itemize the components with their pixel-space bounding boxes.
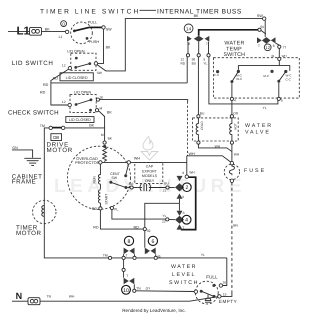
svg-text:6: 6 [151,239,154,245]
wire node32 down to contact 6 [144,231,146,248]
check switch [40,124,105,130]
terminal 21 BU [163,181,175,192]
temp switch internals [214,57,292,97]
wire SW net (lid sw1 to buss) [97,14,264,75]
wire 50 (buss to contact 14) [199,25,266,36]
timer motor [33,200,56,223]
wire node32 up to contacts 2/4 [145,203,180,227]
svg-text:YL: YL [201,253,205,257]
fuse F1 [224,161,266,182]
wire TM to timer motor and neutral rail [44,130,227,258]
cam number 2 [183,183,192,192]
svg-text:WH: WH [69,295,75,299]
wire WH valve hot to fuse [232,144,240,161]
svg-text:RD: RD [134,225,140,229]
svg-text:YL: YL [203,61,207,65]
svg-text:5: 5 [281,98,283,102]
svg-text:MOTOR: MOTOR [47,147,73,154]
svg-text:32: 32 [147,229,151,233]
footer credit [122,308,186,313]
water valve box [193,118,239,141]
overload protector element [103,147,107,161]
timer contact 4 [175,211,185,230]
svg-text:T: T [258,44,260,48]
water level switch [194,281,222,304]
svg-text:T: T [182,226,184,230]
svg-text:8: 8 [146,251,148,255]
svg-text:50: 50 [260,25,264,29]
connector CO (line cord) [30,27,66,38]
svg-text:Rendered by LeadVenture, Inc.: Rendered by LeadVenture, Inc. [122,308,186,313]
svg-text:RD: RD [181,61,186,65]
label TIMER MOTOR [16,225,41,237]
timer contact 14 [184,24,193,33]
terminal N [12,291,28,301]
svg-text:T: T [126,254,128,258]
wire RD lid sw1 to lid sw2 [40,69,68,105]
svg-text:15: 15 [223,293,227,297]
motor start terminal [92,207,102,211]
svg-text:WH: WH [134,157,140,161]
svg-text:HOT: HOT [233,123,237,130]
motor top bus wire WH [99,157,187,164]
terminals 12/58/5 of contact 14 [181,42,211,66]
drive motor circle [67,146,130,209]
contact 14 triangles and diamond [187,36,209,46]
wire contact2 to contact4 [178,199,180,211]
svg-text:WH: WH [234,153,240,157]
capacitor C1 [127,182,165,191]
label CHECK SWITCH [8,110,59,117]
bold bypass wire 9 to T [181,177,196,229]
label LID CLOSED 2 (boxed) [66,117,94,123]
wire BU to water valve [198,57,205,116]
svg-text:DB: DB [53,135,59,140]
timer contact 12 [257,37,276,48]
motor YL terminal [110,206,118,211]
timer contact 6 [145,248,161,259]
svg-text:BU: BU [164,181,169,185]
svg-text:FUSE: FUSE [244,168,266,174]
svg-text:EMPTY: EMPTY [219,299,237,304]
label LID CLOSED 1 (boxed) [53,73,94,81]
svg-text:M-C: M-C [263,74,269,78]
water temp switch box [214,58,300,98]
svg-text:FULL: FULL [206,275,218,280]
lid switch 2 [62,91,104,113]
wire full to neutral rail [223,258,227,286]
svg-text:YL: YL [162,214,166,218]
label WATER TEMP SWITCH [224,40,246,58]
wire OR terminal 4 to valve [232,101,239,116]
node 0 (circled) [61,21,67,27]
svg-text:RUN: RUN [92,176,96,184]
svg-text:12: 12 [62,64,66,68]
svg-text:0: 0 [62,21,65,26]
cam number 12 [264,44,271,51]
terminal L1 [8,26,50,38]
watermark logo [141,137,158,161]
svg-text:EXPORT: EXPORT [142,169,158,173]
svg-text:M: M [101,133,104,137]
svg-text:9: 9 [182,171,184,175]
wire SW buss to contact 12 [264,20,266,37]
svg-text:BK: BK [107,110,112,114]
svg-text:W-C: W-C [236,77,243,81]
terminal 22 YL [162,214,175,224]
label FULL [206,275,218,280]
svg-text:SW: SW [106,28,112,32]
svg-text:CHECK SWITCH: CHECK SWITCH [8,110,59,117]
svg-text:LEVEL: LEVEL [172,272,196,278]
svg-text:30: 30 [100,95,104,99]
terminal SW (buss) [263,17,266,20]
svg-text:LID CLOSED: LID CLOSED [66,76,88,80]
connector CO (neutral) [28,298,40,305]
terminal 15 label [223,293,227,297]
cam number 10 [122,285,131,294]
timer contact 10 [124,274,135,289]
svg-text:22: 22 [162,220,166,224]
svg-text:BN: BN [233,224,238,228]
svg-text:MOTOR: MOTOR [16,230,41,237]
svg-text:WATER: WATER [245,123,273,129]
wire WH valve cold to fuse [198,144,231,151]
svg-text:M: M [100,106,103,110]
svg-text:ONLY: ONLY [145,179,155,183]
svg-text:4: 4 [234,98,236,102]
svg-text:16: 16 [223,281,227,285]
svg-text:12: 12 [62,100,66,104]
svg-text:SW: SW [257,14,263,18]
svg-text:LID SWITCH: LID SWITCH [12,60,54,67]
wire WH motor bus to fuse [187,152,231,175]
svg-text:10: 10 [123,288,129,294]
timer contact 2 [175,170,195,199]
svg-text:RD: RD [40,91,46,95]
svg-text:C-C: C-C [214,73,220,77]
neutral rail terminals [103,253,205,259]
wire 30 to timer area [100,100,188,102]
svg-text:PROTECTOR: PROTECTOR [75,160,100,165]
label LID SWITCH [12,60,54,67]
svg-text:SW: SW [97,71,103,75]
wire to contact 10 [122,260,125,278]
svg-text:CAP: CAP [146,165,154,169]
svg-text:YL: YL [114,208,119,212]
wire YL to temp switch 5 [209,57,278,110]
svg-text:COLD: COLD [200,120,204,130]
terminal 16 label [223,281,227,285]
label OVERLOAD PROTECTOR [75,156,100,165]
svg-text:TN: TN [47,295,52,299]
svg-text:BU: BU [200,112,205,116]
svg-text:TIMER LINE SWITCH: TIMER LINE SWITCH [40,9,140,16]
wire BN fuse to empty [221,182,238,296]
svg-text:WH: WH [189,170,195,174]
cam number 8 [124,236,133,245]
svg-text:SWITCH: SWITCH [169,280,199,286]
svg-text:SW: SW [111,176,117,180]
centrifugal switch [109,164,128,189]
svg-text:MODELS: MODELS [142,174,158,178]
svg-text:YL: YL [263,106,267,110]
lid switch 1 [62,49,98,70]
wire RD timer to lid switches [186,57,188,83]
svg-text:2: 2 [185,185,188,191]
wire M/BK to drive motor [99,110,113,147]
svg-text:LID OPEN: LID OPEN [67,49,85,53]
svg-text:WH: WH [189,152,195,156]
watermark text [54,176,246,197]
svg-text:PUSH: PUSH [89,40,100,44]
title TIMER LINE SWITCH [40,9,140,16]
run winding [92,164,100,189]
svg-text:LID CLOSED: LID CLOSED [69,118,91,122]
svg-text:L1: L1 [59,35,63,39]
wire RD start to contact 6 [93,210,143,229]
svg-text:OR: OR [233,111,239,115]
terminal 5 [277,97,283,102]
svg-text:PULL: PULL [88,21,97,25]
svg-text:BK: BK [89,124,94,128]
svg-text:BK: BK [194,14,199,18]
svg-text:T: T [126,274,128,278]
svg-text:LID OPEN: LID OPEN [74,91,92,95]
cam number 6 [148,236,157,245]
svg-text:WATER: WATER [171,264,197,270]
label WATER VALVE [245,123,273,135]
node 32 [143,228,150,233]
svg-text:INTERNAL TIMER BUSS: INTERNAL TIMER BUSS [157,9,242,16]
svg-text:7: 7 [206,42,208,46]
svg-text:GN: GN [12,146,18,150]
terminal 4 [230,97,236,102]
svg-text:FRAME: FRAME [12,179,36,186]
svg-text:START: START [104,194,108,205]
svg-text:GY: GY [146,286,152,290]
svg-text:WH: WH [215,144,221,148]
svg-text:12: 12 [265,45,270,50]
ground GN [12,146,41,166]
label CABINET FRAME [12,173,43,185]
cap export dashed box [135,163,163,184]
cam number 4 [182,215,191,224]
wire YL motor to terminal 22 [112,210,166,220]
svg-text:8: 8 [128,239,131,245]
dashed timer boundary segment [187,102,189,156]
svg-text:BU: BU [192,61,197,65]
timer contact 8 [124,248,135,258]
svg-text:21: 21 [163,189,167,193]
svg-text:N: N [16,291,23,301]
svg-text:8: 8 [183,211,185,215]
connector DB (boxed) [51,134,62,141]
wire GY to water level switch [133,286,195,292]
svg-text:VALVE: VALVE [245,130,271,136]
svg-text:C-C: C-C [286,77,292,81]
start winding [98,190,108,207]
terminal 77 [271,43,286,58]
svg-text:BK: BK [45,27,50,31]
label WATER LEVEL SWITCH [169,264,199,286]
wire neutral rail [40,295,218,302]
svg-text:8: 8 [182,195,184,199]
svg-text:TM: TM [103,254,108,258]
svg-text:RD: RD [92,207,98,211]
svg-text:14: 14 [186,26,192,31]
valve solenoid HOT [230,115,238,144]
svg-text:RD: RD [53,76,59,80]
timer line switch SW1 [65,21,112,44]
valve solenoid COLD [196,115,204,144]
svg-text:BK: BK [106,45,111,49]
svg-text:BU: BU [129,182,134,186]
label DRIVE MOTOR [47,142,73,154]
svg-text:4: 4 [185,218,188,224]
svg-text:TN: TN [136,286,141,290]
svg-text:RD: RD [93,225,99,229]
wire BK from SW to lid switch 1 [98,29,111,63]
title INTERNAL TIMER BUSS [140,9,242,16]
svg-text:77: 77 [283,46,287,50]
label EMPTY [219,299,237,304]
svg-text:8: 8 [273,44,275,48]
svg-text:RD: RD [43,83,49,87]
svg-text:8: 8 [188,42,190,46]
wire RD horizontal (to timer 12) [51,82,187,84]
